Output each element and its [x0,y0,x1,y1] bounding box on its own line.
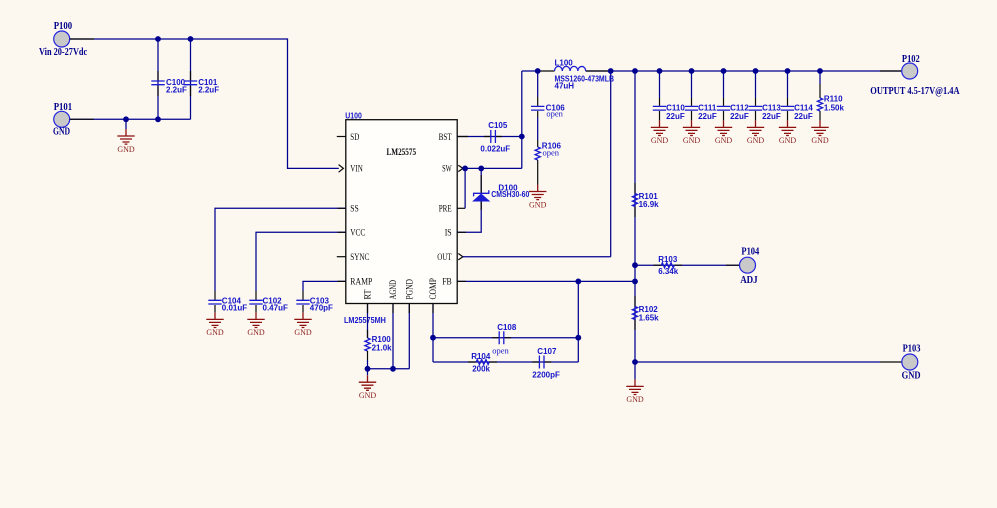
node junction C106 top [535,68,541,74]
svg-text:R110: R110 [824,95,843,104]
resistor R100 [365,335,392,352]
node junction BST riser [519,134,525,140]
svg-text:PGND: PGND [406,279,416,300]
ground at R106 [529,185,547,210]
svg-text:R103: R103 [658,255,678,264]
diode D100 CMSH30-60 [473,184,530,202]
resistor R110 [817,71,844,120]
svg-text:22uF: 22uF [666,112,685,121]
wire R101-R102 riser [634,71,636,362]
svg-text:GND: GND [747,136,765,145]
port P101 [53,102,72,138]
node junction COMP-C108 [430,335,436,341]
svg-text:2.2uF: 2.2uF [166,85,187,94]
wire RT down [367,304,369,339]
wire OUT riser [463,71,611,257]
capacitor C105 [480,121,510,154]
node junction gnd row [632,359,638,365]
svg-text:open: open [543,148,560,158]
wire AGND down [392,304,394,369]
svg-text:L100: L100 [555,58,574,67]
wire top bus [522,70,902,72]
ground at R102 node [626,362,644,404]
port P102 [870,54,960,97]
node junction C100 bottom [155,116,161,122]
capacitor C114 [781,71,814,121]
wire R103 row to P104 [635,264,740,266]
capacitor C100 [151,39,187,119]
svg-text:GND: GND [117,145,135,154]
node junction R110 [817,68,823,74]
svg-text:GND: GND [715,136,733,145]
svg-text:SD: SD [350,133,359,143]
svg-text:FB: FB [442,278,452,288]
capacitor C106 [531,71,565,118]
svg-text:GND: GND [902,370,921,381]
svg-text:22uF: 22uF [730,112,749,121]
wire PRE up to SW [457,168,465,208]
pin SW [442,165,463,175]
svg-text:CMSH30-60: CMSH30-60 [491,190,529,199]
svg-text:P104: P104 [741,247,759,258]
svg-text:open: open [546,108,563,118]
resistor R101 [632,192,659,209]
svg-text:U100: U100 [345,111,362,120]
capacitor C101 [184,39,219,119]
svg-text:1.65k: 1.65k [639,313,660,322]
wire P100 to VIN pin [70,39,339,168]
node junction SW-D100 [478,166,484,172]
svg-text:22uF: 22uF [794,112,813,121]
node junction OUT riser top [608,68,614,74]
svg-text:P103: P103 [903,343,921,354]
capacitor C104 [208,296,247,312]
svg-text:GND: GND [53,127,70,138]
svg-text:200k: 200k [472,364,490,373]
svg-text:GND: GND [651,136,669,145]
ground at C103 [294,305,312,337]
svg-text:0.47uF: 0.47uF [263,304,288,313]
svg-text:Vin 20-27Vdc: Vin 20-27Vdc [39,47,87,58]
node junction FB-R102 [632,279,638,285]
ground at C102 [247,305,265,337]
svg-text:AGND: AGND [389,280,399,300]
svg-text:C105: C105 [488,121,508,130]
node junction FB-C108 riser [575,279,581,285]
capacitor C110 [653,71,686,121]
inductor L100 [555,58,615,90]
node junction R101 riser top [632,68,638,74]
svg-text:COMP: COMP [429,278,439,300]
wire C108 row [433,337,578,339]
svg-text:OUTPUT 4.5-17V@1.4A: OUTPUT 4.5-17V@1.4A [870,86,960,97]
port P103 [902,343,921,381]
wire C108 node riser [577,281,579,362]
node junction C114 [785,68,791,74]
svg-text:GND: GND [294,328,312,337]
resistor R106 [535,117,561,185]
svg-text:22uF: 22uF [698,112,717,121]
wire R100 bottom [367,351,369,369]
svg-text:PRE: PRE [439,205,452,215]
svg-text:BST: BST [439,133,452,143]
svg-text:GND: GND [811,136,829,145]
svg-text:P100: P100 [54,21,72,32]
svg-text:47uH: 47uH [555,82,575,91]
wire to P103 [635,361,902,363]
port P104 [740,247,760,286]
capacitor C111 [685,71,717,121]
svg-text:GND: GND [529,200,547,209]
svg-text:GND: GND [206,328,224,337]
node junction SW-PRE [462,166,468,172]
svg-text:LM25575MH: LM25575MH [344,316,386,325]
wire BST to riser [457,136,522,138]
ground at P101 [117,119,135,154]
capacitor C102 [249,296,288,312]
svg-text:22uF: 22uF [762,112,781,121]
node junction AGND bottom [390,366,396,372]
resistor R104 [468,352,497,373]
svg-text:GND: GND [779,136,797,145]
node junction C100 top [155,36,161,42]
svg-text:470pF: 470pF [310,304,333,313]
ground at C112 [715,120,733,145]
resistor R103 [658,255,679,276]
svg-text:2200pF: 2200pF [532,371,560,380]
capacitor C107 [532,347,560,379]
svg-text:0.022uF: 0.022uF [480,144,510,153]
node junction C112 [721,68,727,74]
svg-text:RT: RT [364,289,374,299]
svg-text:0.01uF: 0.01uF [222,304,247,313]
wire P101 to caps [70,118,191,120]
wire FB row [457,280,635,282]
node junction C110 [657,68,663,74]
wire SS to C104 [215,208,346,300]
svg-text:SYNC: SYNC [350,253,369,263]
wire PGND down [408,304,410,369]
capacitor C112 [717,71,750,121]
wire R104-C107 row [433,361,578,363]
node junction R103 tap [632,262,638,268]
VIN input arrow [339,165,344,173]
ground at C110 [651,120,669,145]
ground at C104 [206,305,224,337]
svg-text:VIN: VIN [350,165,363,175]
pin SYNC [337,253,370,263]
svg-text:6.34k: 6.34k [658,267,679,276]
svg-text:GND: GND [247,328,265,337]
pin OUT [437,253,463,263]
ground at C113 [747,120,765,145]
node junction C111 [689,68,695,74]
capacitor C113 [749,71,782,121]
svg-text:GND: GND [626,395,644,404]
ground at C114 [779,120,797,145]
svg-text:1.50k: 1.50k [824,103,845,112]
svg-text:GND: GND [683,136,701,145]
svg-text:LM25575: LM25575 [386,148,416,158]
ground at RT row [359,369,377,400]
pin SD [337,133,360,143]
svg-text:SS: SS [350,205,359,215]
svg-text:open: open [492,345,509,355]
node junction gnd [123,116,129,122]
node junction C113 [753,68,759,74]
svg-text:RAMP: RAMP [350,278,372,288]
wire SW node to diode to IS [457,168,481,232]
wire RAMP to C103 [303,281,346,300]
node junction C108 right [575,335,581,341]
svg-text:2.2uF: 2.2uF [198,85,219,94]
node junction RT bottom [365,366,371,372]
node junction C101 top [188,36,194,42]
svg-text:R104: R104 [471,352,491,361]
svg-text:P101: P101 [54,102,72,113]
svg-text:16.9k: 16.9k [639,200,660,209]
port P100 [39,21,87,58]
svg-text:GND: GND [359,391,377,400]
svg-text:P102: P102 [902,54,920,65]
capacitor C103 [296,296,333,312]
svg-text:21.0k: 21.0k [372,344,393,353]
resistor R102 [632,305,659,322]
svg-text:IS: IS [445,229,452,239]
wire RT-AGND-PGND row [368,368,410,370]
svg-text:C108: C108 [497,323,517,332]
ground at C111 [683,120,701,145]
svg-text:C107: C107 [537,347,557,356]
wire SW to riser [463,71,522,168]
capacitor C108 [492,323,517,355]
svg-text:ADJ: ADJ [740,275,758,286]
ground at R110 [811,120,829,145]
wire COMP down [432,304,434,363]
svg-text:VCC: VCC [350,229,365,239]
svg-text:SW: SW [442,165,452,175]
op-amp U100 LM25575 IC body [344,111,457,325]
wire VCC to C102 [256,232,346,300]
svg-text:OUT: OUT [437,253,452,263]
